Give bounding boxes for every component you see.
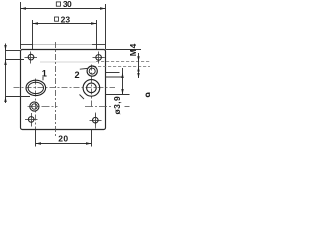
svg-text:ø3,9: ø3,9 (112, 96, 122, 115)
svg-text:2: 2 (75, 70, 80, 80)
svg-text:20: 20 (58, 134, 68, 144)
svg-text:30: 30 (63, 0, 72, 9)
svg-text:1: 1 (42, 68, 47, 78)
svg-text:M4: M4 (128, 43, 138, 56)
svg-text:9: 9 (144, 92, 150, 98)
svg-text:23: 23 (61, 14, 71, 24)
